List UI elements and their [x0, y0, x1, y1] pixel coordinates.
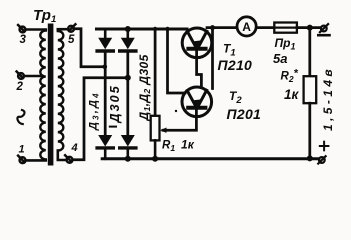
terminal 1: [18, 156, 25, 163]
diode D2: [120, 29, 136, 51]
terminal 2: [17, 72, 24, 79]
bottom rail wire: [102, 157, 319, 160]
wire ammeter to fuse: [256, 26, 274, 29]
label minus: [318, 34, 329, 37]
terminal minus: [320, 24, 328, 32]
wire bridge column 1: [104, 53, 107, 136]
svg-text:Т1: Т1: [223, 42, 236, 59]
wire terminal 1 to winding: [26, 159, 46, 162]
resistor R2: [304, 76, 317, 103]
wire T1 base to T2: [197, 50, 202, 87]
fuse Pr1: [274, 23, 297, 33]
AC symbol: [17, 110, 24, 124]
svg-text:5: 5: [68, 34, 75, 46]
resistor R1: [151, 116, 160, 141]
svg-text:1к: 1к: [284, 87, 300, 102]
arrowhead R1 wiper: [160, 128, 167, 133]
wire secondary top to terminal 5: [58, 28, 68, 31]
transistor T2: [182, 87, 212, 117]
wire terminal 2 to winding: [24, 75, 42, 78]
svg-text:Д3,Д4: Д3,Д4: [88, 91, 101, 131]
junction R2 top: [307, 25, 313, 31]
junction R2 bottom rail: [307, 155, 313, 161]
svg-text:R11к: R11к: [162, 138, 195, 154]
svg-text:П201: П201: [227, 106, 262, 122]
wire R2 to bottom rail: [308, 103, 311, 159]
svg-text:Т2: Т2: [229, 89, 242, 106]
ink speck: [175, 110, 177, 112]
svg-text:R2*: R2*: [281, 68, 299, 85]
junction col2 top rail: [125, 26, 131, 32]
terminal plus: [318, 156, 325, 163]
wire minus junction to R2: [308, 28, 311, 77]
svg-text:4: 4: [71, 142, 78, 154]
wire fuse to minus terminal: [297, 26, 321, 29]
svg-text:1,5-14в: 1,5-14в: [321, 66, 335, 131]
label D305 dash: [110, 126, 116, 128]
ammeter A: [237, 17, 256, 36]
transformer Tr1 primary winding: [40, 31, 46, 160]
svg-text:Д305: Д305: [108, 84, 122, 123]
junction rail T2 wire: [165, 27, 169, 31]
transformer Tr1 secondary winding: [58, 31, 64, 151]
junction rail R1 wire: [153, 27, 157, 31]
diode D3: [97, 135, 113, 159]
wire T1 to ammeter: [207, 26, 238, 29]
transformer Tr1 core: [48, 24, 54, 166]
transistor T1: [182, 28, 212, 58]
svg-text:Д1,Д2 Д305: Д1,Д2 Д305: [137, 54, 152, 121]
terminal 3: [18, 25, 25, 32]
wire R1 to bottom rail: [154, 140, 157, 158]
wire terminal 4 to bridge column 2: [73, 78, 126, 160]
wire top rail to T2 left: [168, 29, 186, 93]
junction R1 bottom rail: [152, 156, 158, 162]
junction col2 bottom rail: [125, 156, 131, 162]
wire top rail to R1: [154, 29, 157, 116]
svg-text:2: 2: [16, 81, 24, 93]
diode D1: [97, 29, 113, 51]
diode D4: [120, 135, 136, 159]
junction col2 term4 wire: [125, 75, 131, 81]
wire T2 right riser: [211, 28, 214, 89]
junction T2 riser: [210, 25, 215, 30]
wire bridge column 2: [126, 53, 129, 136]
top rail wire: [97, 28, 188, 31]
svg-text:A: A: [242, 20, 251, 34]
svg-text:5а: 5а: [273, 51, 287, 66]
svg-text:1: 1: [19, 144, 25, 156]
svg-text:Пр1: Пр1: [275, 36, 296, 52]
junction col1 term5 wire: [103, 65, 108, 70]
wire secondary bottom to terminal 4: [58, 151, 66, 160]
wire terminal 5 to bridge column 1: [74, 29, 103, 67]
svg-text:П210: П210: [218, 57, 253, 73]
terminal 4: [65, 155, 72, 162]
svg-text:3: 3: [20, 34, 27, 46]
label plus: [320, 142, 329, 151]
wire terminal 3 to winding: [26, 28, 46, 31]
svg-text:Тр1: Тр1: [33, 7, 56, 25]
wire T2 base to R1 wiper: [163, 109, 196, 130]
terminal 5: [68, 24, 75, 31]
